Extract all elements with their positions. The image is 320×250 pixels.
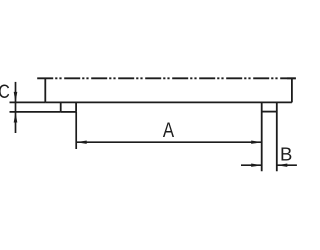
- dimension line B left segment: [241, 164, 262, 166]
- arrowhead C up: [14, 112, 18, 123]
- svg-text:B: B: [280, 144, 292, 165]
- body bottom edge: [45, 101, 292, 103]
- dimension line C: [15, 82, 17, 133]
- arrowhead B right-segment pointing left: [277, 164, 288, 167]
- centerline (phantom line, container top pivot axis): [37, 77, 296, 79]
- arrowhead A right: [251, 141, 262, 144]
- left foot right edge: [75, 102, 77, 112]
- arrowhead B left-segment pointing right: [251, 164, 262, 167]
- dimension line B right segment: [277, 164, 297, 166]
- right leg step line: [262, 111, 277, 113]
- extension line A left: [75, 112, 77, 149]
- left foot left edge: [60, 102, 62, 112]
- left foot bottom edge: [61, 111, 76, 113]
- arrowhead C down: [14, 92, 18, 103]
- body right edge: [291, 78, 293, 102]
- svg-text:A: A: [163, 119, 174, 142]
- extension line C upper (body bottom extended left): [10, 101, 46, 103]
- right leg left edge: [261, 102, 263, 171]
- extension line C lower (foot bottom extended left): [10, 111, 61, 113]
- centerline solid right end: [287, 77, 296, 79]
- right leg right edge: [276, 102, 278, 171]
- body left edge: [44, 78, 46, 102]
- svg-text:C: C: [0, 80, 10, 102]
- dimension line A: [76, 141, 262, 143]
- arrowhead A left: [76, 141, 87, 144]
